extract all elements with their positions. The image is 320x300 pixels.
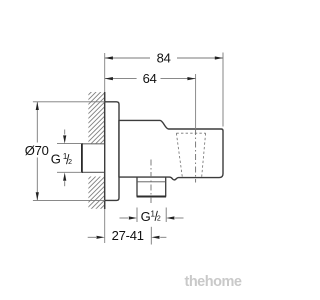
svg-text:2: 2	[157, 216, 161, 223]
27-41 extension line (wall face lower thin part)	[104, 209, 106, 243]
outlet spigot G1/2	[137, 177, 167, 196]
holder cone hidden outline (dashed trapezoid)	[176, 133, 205, 178]
dimension 84 extension line left (wall face upper thin part)	[104, 53, 106, 92]
svg-text:64: 64	[143, 71, 157, 86]
cone centre axis: solid extension of dim 64 then dash-dot	[195, 74, 197, 129]
svg-text:84: 84	[157, 51, 171, 66]
dimension 27-41	[88, 227, 167, 245]
watermark thehome	[185, 274, 242, 290]
escutcheon plate	[105, 102, 119, 201]
dimension G1/2 left (nipple)	[57, 130, 82, 187]
holder body outline	[119, 120, 223, 179]
outlet centre axis dash-dot	[150, 160, 152, 204]
svg-text:27-41: 27-41	[112, 228, 144, 243]
dimension 84	[105, 53, 223, 127]
svg-text:2: 2	[68, 159, 72, 166]
label G1/2 bottom	[141, 209, 161, 224]
dimension 64	[105, 78, 196, 80]
dimension D70 extension lines	[33, 102, 105, 201]
label G1/2 left	[51, 152, 72, 167]
dimension G1/2 bottom (outlet)	[120, 208, 184, 223]
svg-text:1: 1	[151, 209, 156, 218]
G1/2 nipple through wall	[82, 143, 105, 173]
wall hatching (upper and lower bands)	[86, 67, 107, 228]
svg-text:G: G	[51, 152, 61, 167]
svg-text:Ø70: Ø70	[25, 143, 49, 158]
svg-text:G: G	[141, 209, 151, 224]
wall face line	[104, 92, 106, 209]
